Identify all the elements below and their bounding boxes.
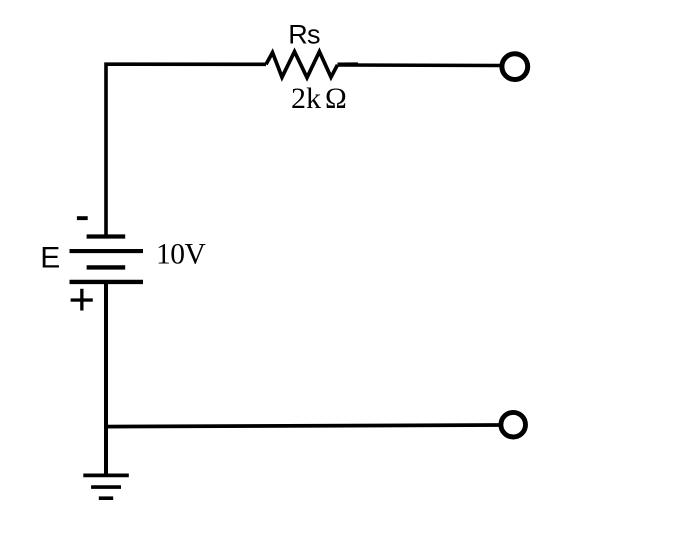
battery E plate 4 (long, positive) bbox=[70, 280, 144, 284]
svg-text:Ω: Ω bbox=[325, 83, 347, 115]
wire: resistor to top terminal bbox=[338, 63, 501, 67]
battery E plate 3 (short, negative) bbox=[87, 265, 126, 269]
wire: top-left vertical + top horizontal to resistor bbox=[106, 64, 266, 235]
wire: resistor stub overlap bbox=[338, 62, 359, 65]
label minus polarity bbox=[77, 216, 88, 220]
battery E plate 1 (short, negative) bbox=[87, 234, 126, 238]
wire: battery bottom down to ground bbox=[104, 283, 108, 475]
wire: bottom horizontal to bottom terminal bbox=[104, 425, 500, 427]
label plus polarity bbox=[71, 289, 93, 311]
node: bottom open terminal circle bbox=[501, 412, 526, 437]
battery E plate 2 (long, positive) bbox=[70, 249, 144, 253]
ground symbol bbox=[83, 475, 129, 498]
svg-text:2k: 2k bbox=[291, 82, 321, 115]
svg-text:10V: 10V bbox=[156, 238, 206, 270]
svg-text:E: E bbox=[40, 242, 60, 275]
resistor R1 Rs zigzag bbox=[266, 52, 338, 78]
svg-text:Rs: Rs bbox=[288, 20, 320, 50]
node: top open terminal circle bbox=[502, 54, 528, 80]
